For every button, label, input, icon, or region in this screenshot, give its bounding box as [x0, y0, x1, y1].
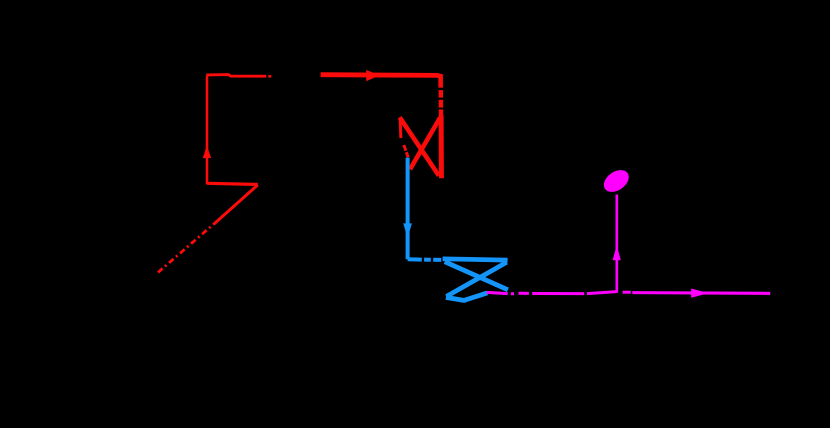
arrowhead right on top line: [366, 70, 379, 81]
valve V1 left edge (dashed): [399, 118, 403, 139]
wire: magenta vertical branch up: [615, 195, 618, 293]
arrowhead up on red riser: [203, 145, 211, 158]
magenta dash after junction: [623, 291, 631, 294]
valve V2 bottom edge: [446, 293, 488, 301]
magenta long dash: [532, 292, 584, 295]
wire: red corner down from top line: [437, 75, 441, 87]
arrowhead down on blue drop: [403, 223, 412, 238]
magenta long dash 2: [587, 292, 617, 294]
wire: magenta out of blue valve: [487, 292, 508, 293]
wire: red top horizontal thick segment: [321, 72, 439, 78]
wire: red vertical riser at x=207: [206, 76, 209, 184]
valve V2 diagonal TR-BL: [446, 262, 506, 296]
dash dot on top line: [268, 75, 271, 78]
valve V2 diagonal TL-BR: [445, 262, 508, 290]
wire: blue dashes: [424, 258, 431, 262]
wire: magenta solid to right edge: [632, 291, 770, 295]
wire: red vertical dashes into valve: [439, 90, 443, 98]
pump/indicator ellipse: [600, 166, 633, 197]
magenta dash: [519, 292, 529, 295]
wire: red top horizontal left segment: [206, 75, 266, 77]
valve V2 (blue, horizontal pipe) top edge: [443, 259, 508, 260]
valve V1 diagonal TL-BR: [400, 117, 439, 175]
arrowhead up on magenta branch: [613, 245, 621, 260]
wire: blue vertical drop from red valve: [406, 158, 410, 260]
wire: red horizontal at y=183: [207, 183, 258, 184]
valve V1 diagonal TR-BL: [410, 118, 440, 170]
wire: red diagonal solid upper part: [214, 185, 258, 225]
arrowhead right on magenta line: [691, 289, 709, 298]
magenta dash dot: [511, 292, 514, 295]
wire: red dash-dot diagonal feed (lower-left): [158, 223, 215, 272]
valve V1 (red, vertical pipe) right edge: [439, 115, 444, 178]
wire: blue elbow horizontal: [408, 257, 422, 261]
